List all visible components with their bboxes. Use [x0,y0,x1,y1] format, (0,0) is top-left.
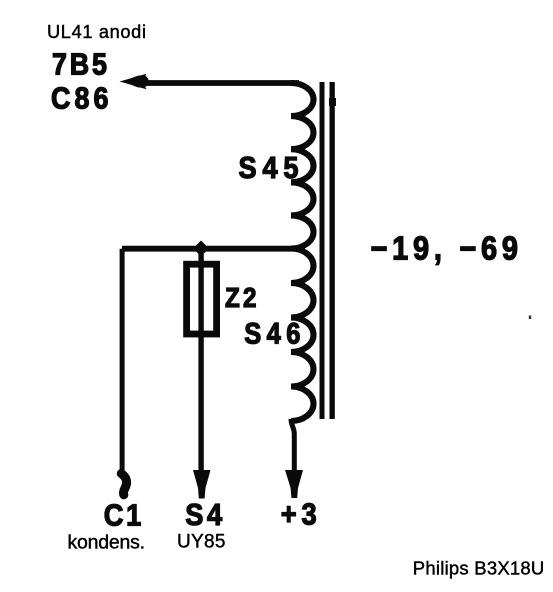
wire top anode lead [138,80,299,86]
label S4 [185,498,223,532]
arrow terminal +3 [285,470,303,498]
svg-text:7B5: 7B5 [52,48,107,82]
svg-text:Philips B3X18U: Philips B3X18U [413,558,545,579]
label -19, -69 [371,230,518,267]
node junction at tap [193,241,209,257]
label +3 [281,498,317,532]
transformer core line 2 [330,82,335,419]
svg-text:C86: C86 [51,82,108,116]
arrow terminal to UL41 anode [120,74,147,89]
resistor Z2 (VDR) [187,264,217,334]
svg-text:Z2: Z2 [225,284,257,314]
wire tap horizontal [122,246,292,252]
speck artifact [529,316,531,320]
label C1 [104,499,141,533]
label S46 [244,317,300,350]
label C86 [51,82,108,116]
svg-text:S45: S45 [239,151,299,185]
core blob artifact [329,98,336,106]
svg-text:S46: S46 [244,317,300,350]
label Z2 [225,284,257,314]
transformer core line 1 [320,82,325,419]
label S45 [239,151,299,185]
svg-text:UL41 anodi: UL41 anodi [47,22,146,42]
svg-text:S4: S4 [185,498,223,532]
arrow terminal S4 [193,470,211,499]
primary winding S45 [291,83,314,249]
wire S46 bottom lead [291,419,294,471]
svg-text:C1: C1 [104,499,141,533]
svg-text:UY85: UY85 [177,532,226,553]
wire junction to Z2 and S4 [198,249,203,471]
svg-text:kondens.: kondens. [68,532,146,554]
wire left branch down to C1 [120,249,125,472]
secondary winding S46 [291,249,314,422]
terminal hook C1 [121,474,126,495]
svg-text:−19, −69: −19, −69 [371,230,518,267]
label 7B5 [52,48,107,82]
svg-text:+3: +3 [281,498,317,532]
